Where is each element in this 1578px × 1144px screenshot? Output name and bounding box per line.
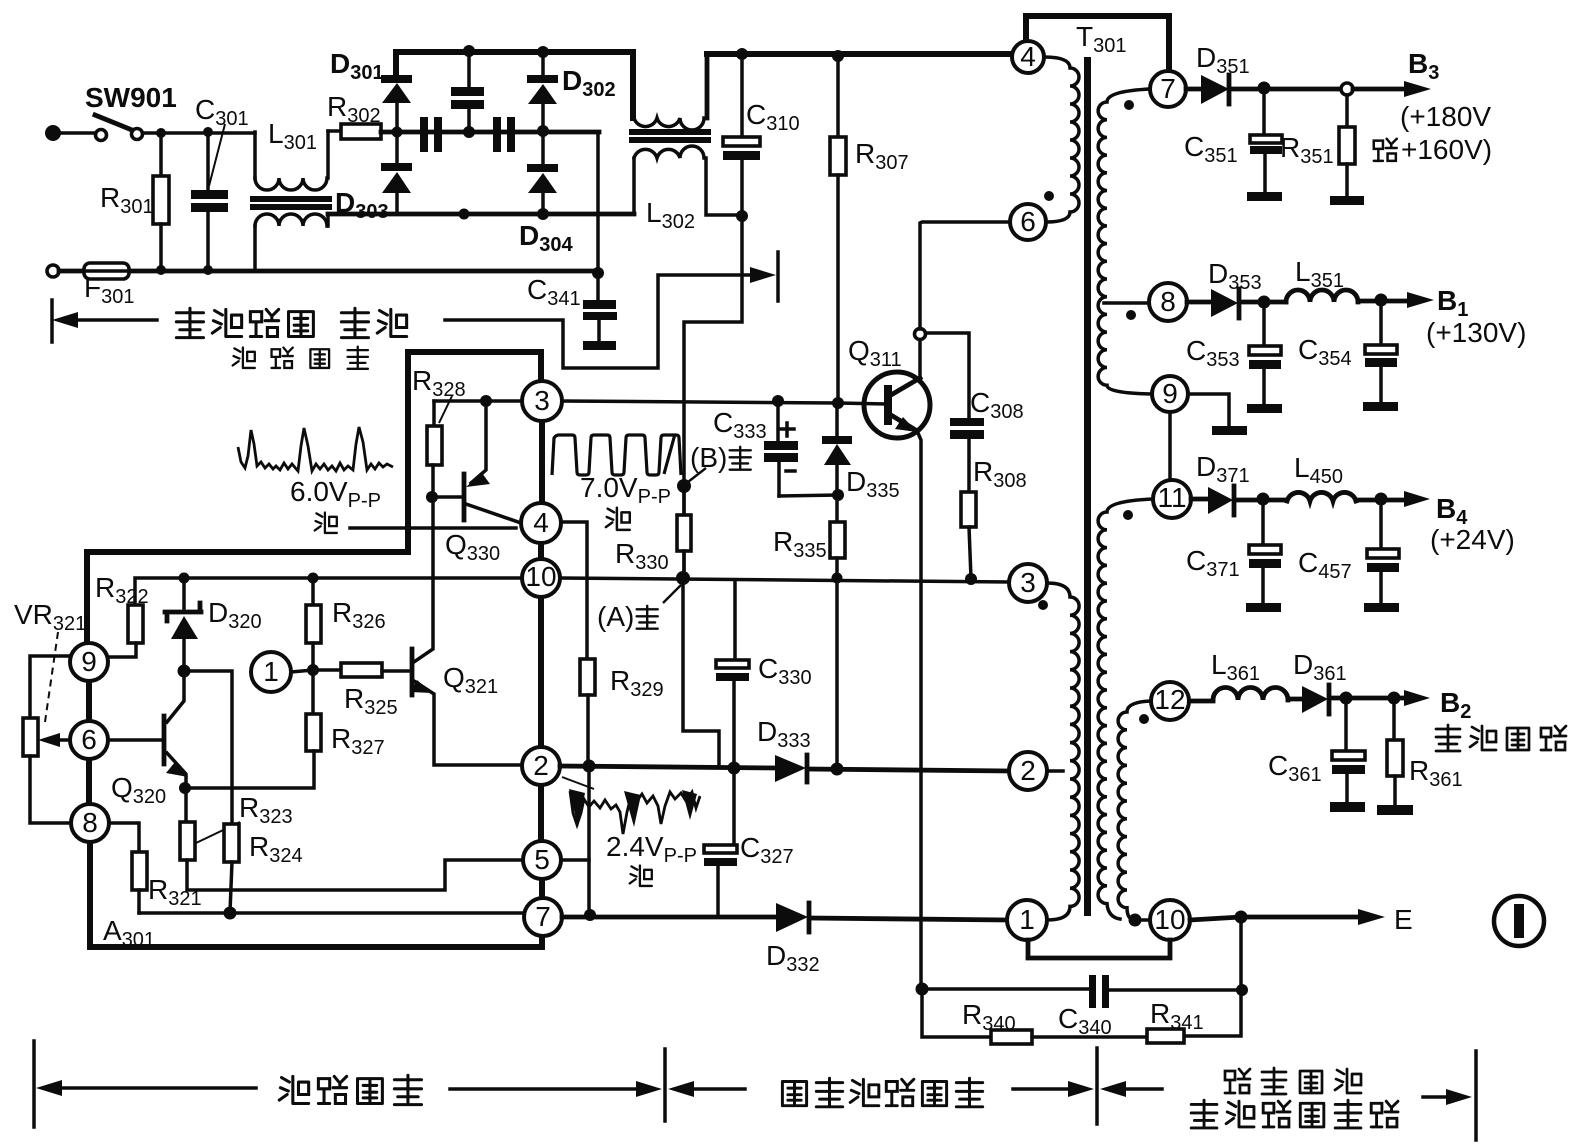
inductor L302 (common-mode choke) bbox=[630, 52, 636, 118]
label 行 (6.0V) bbox=[315, 513, 337, 533]
wire (A-point down and over to pin2 rail) bbox=[683, 578, 719, 767]
wire bbox=[61, 131, 96, 135]
wire (pin 12 to B2) bbox=[1190, 699, 1213, 704]
svg-text:10: 10 bbox=[1154, 904, 1185, 935]
resistor R330 bbox=[682, 486, 686, 515]
node bbox=[584, 909, 596, 921]
svg-text:6: 6 bbox=[1020, 206, 1036, 237]
node bbox=[1235, 911, 1248, 924]
terminal T1 (top input) bbox=[45, 125, 61, 141]
winding (secondary 11-10) bbox=[1098, 499, 1153, 919]
T301 pin 10 bbox=[1150, 900, 1190, 940]
node (Q330 emitter top) bbox=[480, 395, 492, 407]
svg-text:(A): (A) bbox=[597, 601, 634, 632]
transistor Q330 bbox=[471, 401, 486, 483]
node (C310 top) bbox=[736, 48, 748, 60]
svg-text:3: 3 bbox=[534, 385, 550, 416]
node (C310 bottom) bbox=[736, 210, 748, 222]
wire (pin 7 rail to D332) bbox=[562, 915, 776, 920]
resistor R307 bbox=[832, 50, 844, 62]
node (open) bbox=[1341, 83, 1353, 95]
svg-text:8: 8 bbox=[1160, 286, 1176, 317]
svg-text:4: 4 bbox=[1020, 41, 1036, 72]
svg-text:7: 7 bbox=[1160, 73, 1176, 104]
node (emitter/R327 junction) bbox=[179, 782, 191, 794]
transistor Q311 bbox=[864, 372, 930, 438]
pin 8 bbox=[71, 804, 109, 842]
node bbox=[1258, 296, 1271, 309]
node (R301 top) bbox=[156, 128, 166, 138]
resistor R323 bbox=[184, 788, 188, 822]
terminal T2 (bottom input) bbox=[47, 265, 59, 277]
svg-text:9: 9 bbox=[1162, 378, 1178, 409]
diode D361 bbox=[1302, 686, 1328, 713]
capacitor (series cap B on mid rail) bbox=[493, 117, 501, 152]
wire (bridge bottom rail) bbox=[328, 212, 634, 217]
node A-point bbox=[676, 571, 690, 585]
T301 pin 3 bbox=[1009, 564, 1047, 602]
label 行 (7.0V) bbox=[606, 508, 630, 530]
diode D332 bbox=[776, 903, 808, 932]
capacitor C340 bbox=[1089, 975, 1096, 1008]
wire (pin 9 to ground) bbox=[1188, 394, 1229, 426]
capacitor C457 bbox=[1379, 499, 1383, 549]
node bbox=[1375, 493, 1388, 506]
svg-text:9: 9 bbox=[81, 646, 97, 677]
node (R335 at A rail) bbox=[832, 573, 843, 584]
label 声频电路 bbox=[1436, 725, 1460, 751]
svg-text:2: 2 bbox=[1020, 755, 1036, 786]
wire (pin 9 to pin 11) bbox=[1168, 412, 1172, 480]
svg-text:E: E bbox=[1394, 904, 1413, 935]
wire (pin 10 to E) bbox=[1190, 917, 1360, 920]
capacitor (series cap A on mid rail) bbox=[420, 117, 428, 152]
capacitor C351 bbox=[1262, 88, 1266, 135]
T301 pin 2 bbox=[1009, 752, 1047, 790]
ground (R351) bbox=[1330, 196, 1364, 205]
module A301 outline (thick boundary) bbox=[87, 352, 541, 643]
node (C301 bottom) bbox=[203, 265, 213, 275]
node (pin1/R325/R326/R327 junction) bbox=[307, 664, 319, 676]
node B-point bbox=[677, 479, 691, 493]
T301 pin 9 bbox=[1152, 376, 1188, 412]
wire bbox=[143, 131, 255, 135]
node bbox=[1375, 294, 1388, 307]
inductor L450 bbox=[1287, 492, 1356, 501]
resistor R301 bbox=[159, 133, 163, 176]
svg-text:3: 3 bbox=[1020, 567, 1036, 598]
label 控制电路 bbox=[279, 1076, 308, 1103]
ground (C361) bbox=[1330, 802, 1365, 812]
node bbox=[463, 126, 475, 138]
winding (primary 3-2-1) bbox=[1047, 583, 1079, 920]
capacitor C353 bbox=[1262, 302, 1266, 346]
node (emitter line joins loop) bbox=[916, 983, 929, 996]
T301 pin 4 bbox=[1012, 41, 1044, 73]
svg-text:(+180V: (+180V bbox=[1400, 101, 1491, 132]
node bbox=[1388, 692, 1401, 705]
T301 pin 11 bbox=[1153, 480, 1191, 518]
snubber R340 C340 R341 loop bbox=[1183, 917, 1241, 1036]
ground (C351) bbox=[1247, 192, 1282, 201]
wire (C333 bottom to D335) bbox=[779, 495, 838, 496]
resistor R321 bbox=[109, 823, 139, 852]
label 间歇振荡电路 bbox=[782, 1082, 806, 1106]
wire (C310 down to oscillator B-point line) bbox=[684, 216, 742, 578]
capacitor C354 bbox=[1379, 300, 1383, 345]
wire (bridge top rail) bbox=[396, 52, 633, 75]
svg-text:1: 1 bbox=[1019, 904, 1035, 935]
capacitor C301 bbox=[206, 132, 210, 270]
phase dot bbox=[1038, 600, 1048, 610]
potentiometer VR321 bbox=[30, 656, 70, 718]
capacitor C361 bbox=[1344, 698, 1348, 751]
resistor R328 bbox=[432, 401, 436, 426]
capacitor (bridge cap vertical) bbox=[467, 52, 471, 132]
T301 pin 8 bbox=[1149, 283, 1187, 321]
svg-text:6: 6 bbox=[81, 724, 97, 755]
svg-text:(+130V): (+130V) bbox=[1426, 317, 1526, 348]
wire (collector up to pin 6) bbox=[918, 339, 922, 378]
resistor R341 bbox=[1147, 1029, 1184, 1043]
ground (C354) bbox=[1363, 402, 1398, 411]
resistor R361 bbox=[1392, 698, 1396, 740]
waveform (7.0Vp-p pulses) bbox=[552, 434, 681, 475]
resistor R308 bbox=[961, 492, 976, 527]
node (C341 junction) bbox=[592, 267, 604, 279]
resistor R340 bbox=[991, 1030, 1032, 1044]
node bbox=[1257, 493, 1270, 506]
wire (internal rail y578) bbox=[135, 578, 522, 605]
section label pointer (AC section) bbox=[50, 300, 54, 342]
node (R335 line joins pin2 rail) bbox=[831, 763, 844, 776]
pin 3 bbox=[522, 381, 562, 421]
resistor R329 bbox=[580, 659, 595, 695]
svg-text:8: 8 bbox=[82, 807, 98, 838]
wire (pin 10 / A-point rail) bbox=[560, 578, 1009, 582]
divider (control / oscillator) bbox=[663, 1049, 667, 1121]
resistor R302 bbox=[328, 129, 341, 133]
capacitor C371 bbox=[1261, 499, 1265, 545]
divider (bottom left) bbox=[32, 1041, 36, 1127]
diode D335 bbox=[835, 403, 839, 436]
label 行 (2.4V) bbox=[630, 866, 652, 886]
inductor L351 bbox=[1286, 290, 1358, 302]
resistor R324 bbox=[224, 824, 239, 862]
svg-text:12: 12 bbox=[1154, 684, 1185, 715]
divider (right) bbox=[1474, 1051, 1478, 1140]
pin 6 bbox=[70, 721, 108, 759]
node bbox=[1340, 692, 1353, 705]
pin 1 (inner) bbox=[251, 652, 291, 692]
ground (C457) bbox=[1364, 603, 1399, 612]
wire (pin 2 output rail) bbox=[560, 766, 775, 768]
resistor R322 bbox=[128, 605, 143, 643]
node bbox=[537, 125, 549, 137]
wire (pin 5 jog down to pin 7 rail) bbox=[561, 860, 589, 915]
label 交流供电 整流 bbox=[176, 308, 203, 337]
transformer T301 outline bbox=[1026, 16, 1169, 70]
ground (C371) bbox=[1246, 603, 1281, 612]
node bbox=[537, 208, 549, 220]
node (R324 bottom) bbox=[224, 907, 237, 920]
resistor R325 bbox=[313, 668, 341, 672]
svg-text:(B): (B) bbox=[690, 442, 727, 473]
mark I (page marker) bbox=[1494, 896, 1544, 946]
node (R329 bottom / vertical to pin7 rail) bbox=[583, 760, 596, 773]
wire (to R324) bbox=[184, 671, 232, 824]
node bbox=[459, 209, 470, 220]
pin 9 bbox=[70, 643, 108, 681]
capacitor C341 bbox=[596, 273, 600, 300]
diode D333 bbox=[775, 755, 806, 782]
svg-text:SW901: SW901 bbox=[85, 82, 177, 113]
svg-text:(+24V): (+24V) bbox=[1430, 524, 1515, 555]
node (winding ends at pin 10) bbox=[1129, 914, 1142, 927]
pin 2 bbox=[522, 747, 560, 785]
node bbox=[392, 127, 403, 138]
ground (C353) bbox=[1247, 404, 1282, 413]
label 滤波电路 bbox=[233, 348, 255, 368]
node (open circle on collector line) bbox=[915, 329, 926, 340]
node (D320 bottom) bbox=[178, 665, 191, 678]
resistor R326 bbox=[308, 573, 319, 584]
diode D302 bbox=[541, 52, 545, 75]
wire (top rail to T301 pin 4) bbox=[707, 51, 1013, 57]
node bbox=[1258, 82, 1271, 95]
phase dot bbox=[1044, 191, 1054, 201]
switch SW901 bbox=[96, 130, 107, 141]
diode D371 bbox=[1208, 487, 1233, 514]
zener diode D320 bbox=[182, 578, 186, 608]
wire (R329 branch from pin 4) bbox=[561, 522, 587, 659]
resistor R327 bbox=[311, 670, 315, 714]
svg-text:7: 7 bbox=[535, 901, 551, 932]
label 或+160V) bbox=[1374, 139, 1397, 161]
wire (R328 to pin 3) bbox=[434, 399, 522, 403]
waveform (2.4Vp-p) bbox=[570, 791, 700, 834]
T301 pin 12 bbox=[1151, 682, 1189, 720]
wire (D332 to T301 pin 1) bbox=[810, 918, 1006, 920]
capacitor C310 bbox=[740, 54, 744, 215]
node (C301 top) bbox=[203, 127, 213, 137]
resistor R335 bbox=[835, 495, 839, 522]
ground (pin 9) bbox=[1212, 426, 1247, 435]
wire arrow to B3 bbox=[1353, 87, 1408, 92]
svg-text:1: 1 bbox=[263, 656, 279, 687]
inductor L361 bbox=[1213, 688, 1288, 701]
node bbox=[179, 573, 190, 584]
svg-text:10: 10 bbox=[525, 561, 556, 592]
node (D335 bottom) bbox=[832, 489, 844, 501]
wire (emitter down to C340 loop) bbox=[918, 433, 921, 989]
diode D301 bbox=[381, 75, 412, 83]
diode D351 bbox=[1201, 75, 1229, 104]
inductor L301 (common-mode choke) bbox=[253, 132, 257, 178]
pin 10 bbox=[522, 559, 560, 597]
wire (pin 2 tap) bbox=[1047, 769, 1063, 773]
transistor Q321 bbox=[410, 649, 415, 695]
wire (mid rail drop to C341 node) bbox=[596, 132, 600, 273]
node (R328/Q330 base) bbox=[426, 491, 438, 503]
phase dot bbox=[1123, 510, 1133, 520]
diode D353 bbox=[1211, 289, 1238, 317]
divider (oscillator / output) bbox=[1095, 1048, 1099, 1124]
phase dot bbox=[1126, 310, 1136, 320]
label 整流滤波电路 bbox=[1191, 1100, 1217, 1128]
phase dot bbox=[1139, 714, 1149, 724]
node (C330 bottom) bbox=[728, 762, 741, 775]
node bbox=[463, 45, 475, 57]
winding (secondary 7-8-9) bbox=[1098, 89, 1151, 394]
svg-text:+160V): +160V) bbox=[1401, 134, 1492, 165]
svg-text:5: 5 bbox=[534, 844, 550, 875]
T301 pin 6 bbox=[1010, 204, 1046, 240]
waveform (6.0Vp-p fly-back) bbox=[238, 427, 393, 471]
wire (pin 11 to B4) bbox=[1191, 497, 1208, 502]
T301 core bbox=[1084, 57, 1091, 916]
node bbox=[537, 46, 549, 58]
T301 pin 7 bbox=[1150, 71, 1186, 107]
winding (secondary 12-10) bbox=[1118, 701, 1151, 920]
transistor Q320 bbox=[167, 671, 184, 722]
pin 4 bbox=[521, 503, 561, 543]
pin 5 bbox=[523, 841, 561, 879]
node bbox=[1236, 984, 1248, 996]
svg-text:4: 4 bbox=[533, 507, 549, 538]
resistor R351 bbox=[1345, 95, 1349, 127]
wire (internal bottom rail to pin 7) bbox=[139, 911, 524, 915]
node (R307/D335 on base wire) bbox=[832, 397, 844, 409]
ground (R361) bbox=[1377, 805, 1413, 815]
phase dot bbox=[1124, 100, 1134, 110]
wire (pins 1-10 bottom link) bbox=[1028, 940, 1170, 958]
node (R308 bottom) bbox=[965, 573, 977, 585]
diode D304 bbox=[541, 131, 545, 164]
diode D303 bbox=[395, 132, 399, 163]
capacitor C333 bbox=[772, 395, 784, 407]
T301 pin 1 bbox=[1007, 900, 1047, 940]
fuse F301 bbox=[84, 263, 129, 279]
wire (pin 8 to B1) bbox=[1187, 300, 1211, 305]
label 输出电压 bbox=[1225, 1069, 1250, 1093]
wire (pin 3 to Q311 base) bbox=[562, 401, 885, 404]
pin 7 bbox=[524, 898, 562, 936]
winding (primary 4-6) bbox=[1044, 57, 1079, 222]
capacitor C327 bbox=[732, 768, 736, 845]
capacitor C330 bbox=[733, 580, 737, 660]
wire (bottom input rail) bbox=[59, 269, 598, 274]
node (R301 bottom) bbox=[156, 265, 166, 275]
wire (bridge mid rail) bbox=[381, 130, 599, 135]
wire (D333 to T301 pin 2) bbox=[808, 769, 1008, 771]
svg-text:2: 2 bbox=[533, 750, 549, 781]
svg-text:11: 11 bbox=[1157, 482, 1186, 513]
wire (pin 8 tap) bbox=[1104, 301, 1149, 305]
capacitor C308 bbox=[926, 333, 969, 418]
wire (pin 7 to B3) bbox=[1186, 87, 1201, 92]
